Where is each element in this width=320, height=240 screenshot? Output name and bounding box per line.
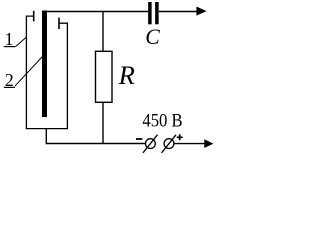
wire photocell to bottom rail — [46, 129, 145, 144]
terminal socket plus slash — [162, 135, 177, 153]
svg-text:R: R — [118, 60, 135, 90]
photocell envelope / anode loop (electrode 1 body) — [26, 16, 67, 129]
minus sign — [136, 138, 142, 140]
svg-text:450 В: 450 В — [142, 110, 182, 131]
svg-text:C: C — [145, 25, 160, 49]
cathode bar (electrode 2) — [42, 11, 47, 118]
electrode 1 top tick — [33, 11, 35, 22]
output arrow top — [196, 7, 206, 16]
capacitor C right plate — [155, 2, 159, 24]
terminal socket minus slash — [143, 135, 158, 153]
terminal socket minus — [146, 139, 156, 149]
label 2 underline — [4, 86, 15, 88]
resistor R body — [96, 51, 113, 102]
output arrow bottom — [204, 139, 213, 148]
wire resistor to bottom rail — [102, 102, 104, 143]
electrode 1 inner tick — [58, 18, 60, 29]
wire capacitor to arrow — [159, 11, 198, 13]
terminal socket plus — [164, 139, 174, 149]
leader line 2 — [15, 57, 43, 87]
leader line 1 — [16, 37, 26, 46]
top rail wire — [44, 11, 148, 13]
wire top rail to resistor — [102, 12, 104, 52]
plus sign — [177, 134, 183, 140]
label 1 underline — [4, 46, 16, 48]
capacitor C left plate — [148, 2, 152, 24]
wire to bottom arrow — [174, 143, 205, 145]
